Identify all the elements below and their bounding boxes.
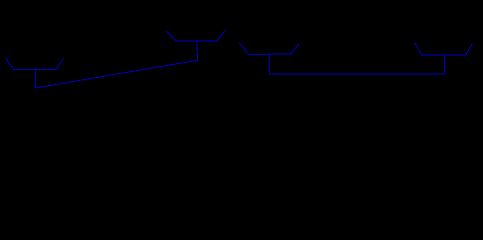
antenna symbol 2 (left) xyxy=(6,58,64,88)
antenna symbol 4 (right) xyxy=(415,43,473,74)
antenna symbol 1 (top center-left) xyxy=(166,30,225,60)
wire from antenna 2 stem to antenna 1 stem (diagonal) xyxy=(36,60,198,88)
antenna symbol 3 (center-right) xyxy=(239,43,298,74)
wire from antenna 3 stem to antenna 4 stem (horizontal) xyxy=(270,73,445,75)
